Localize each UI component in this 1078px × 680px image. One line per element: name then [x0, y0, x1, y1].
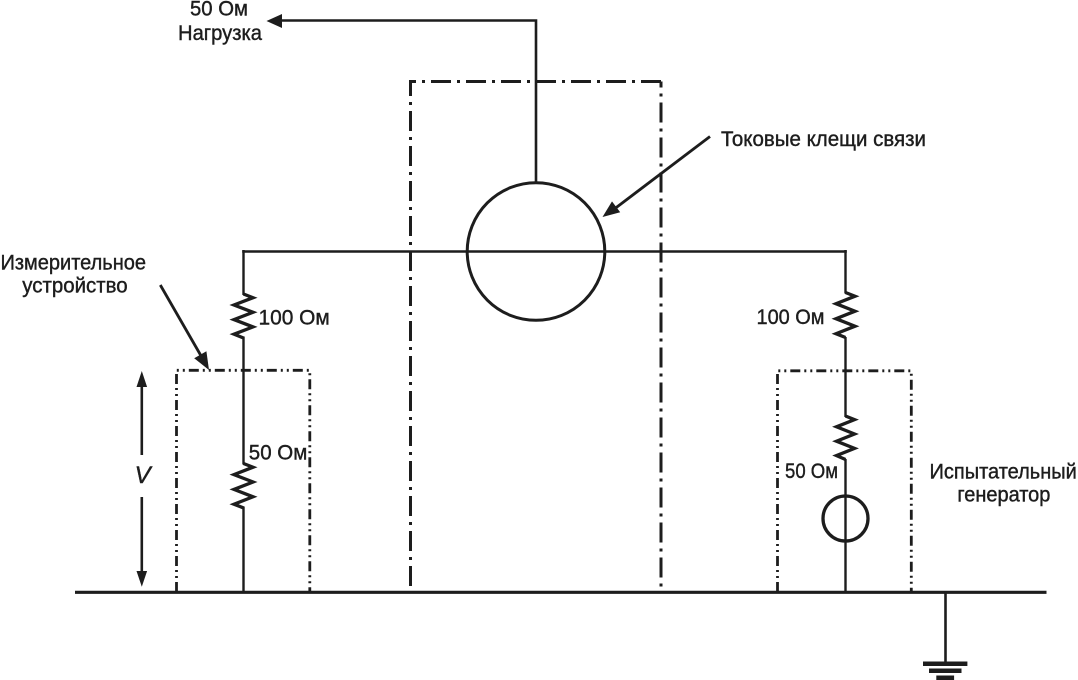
svg-text:Измерительное: Измерительное [1, 252, 147, 275]
svg-text:генератор: генератор [957, 483, 1050, 506]
svg-text:100 Ом: 100 Ом [757, 306, 825, 329]
svg-text:Нагрузка: Нагрузка [178, 22, 262, 45]
svg-text:50 Ом: 50 Ом [190, 0, 248, 20]
svg-text:Токовые клещи связи: Токовые клещи связи [721, 128, 926, 151]
svg-text:100 Ом: 100 Ом [259, 307, 330, 330]
svg-text:V: V [135, 462, 153, 489]
svg-text:50 Ом: 50 Ом [785, 460, 838, 483]
svg-text:50 Ом: 50 Ом [249, 442, 307, 465]
svg-text:устройство: устройство [22, 274, 127, 297]
svg-text:Испытательный: Испытательный [930, 461, 1077, 484]
